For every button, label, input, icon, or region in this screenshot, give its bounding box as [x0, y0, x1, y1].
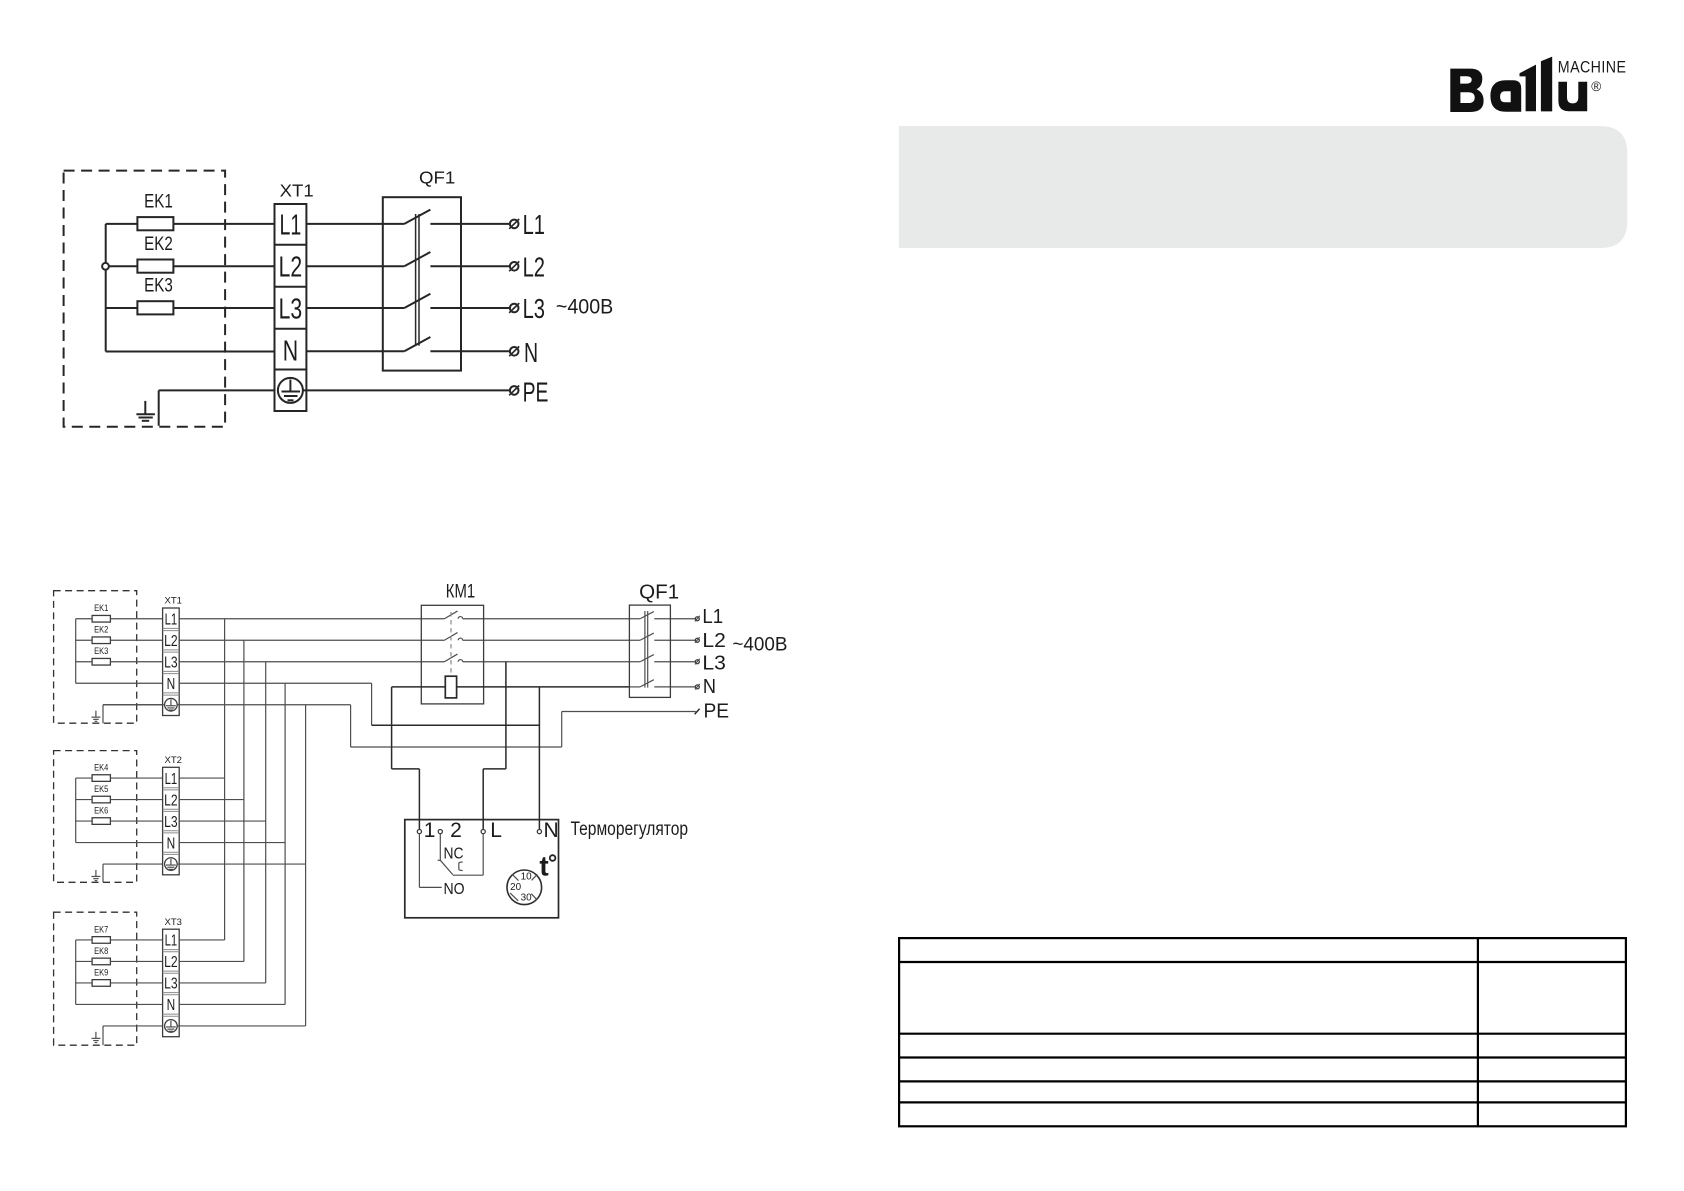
svg-text:PE: PE: [704, 700, 730, 723]
svg-text:EK4: EK4: [94, 762, 108, 773]
svg-text:XT1: XT1: [165, 596, 182, 607]
svg-text:N: N: [167, 676, 176, 693]
svg-text:MACHINE: MACHINE: [1558, 59, 1627, 77]
svg-text:L1: L1: [165, 611, 178, 628]
svg-text:N: N: [703, 675, 716, 698]
svg-text:20: 20: [510, 882, 522, 893]
svg-text:EK1: EK1: [94, 603, 108, 614]
svg-text:~400В: ~400В: [732, 634, 787, 656]
svg-text:XT1: XT1: [280, 180, 314, 200]
svg-text:КМ1: КМ1: [446, 581, 475, 603]
svg-text:Терморегулятор: Терморегулятор: [571, 819, 689, 840]
svg-text:L1: L1: [165, 933, 178, 950]
svg-text:L2: L2: [164, 792, 178, 809]
svg-text:L1: L1: [702, 605, 723, 628]
svg-text:L3: L3: [164, 814, 178, 831]
svg-text:N: N: [544, 819, 559, 842]
svg-text:EK5: EK5: [94, 784, 108, 795]
svg-text:EK7: EK7: [94, 924, 108, 935]
svg-text:L1: L1: [523, 209, 545, 240]
svg-text:1: 1: [424, 819, 436, 842]
svg-text:L2: L2: [279, 251, 303, 283]
svg-text:XT2: XT2: [165, 755, 182, 766]
svg-text:L2: L2: [702, 629, 726, 652]
svg-text:L2: L2: [164, 954, 178, 971]
svg-text:EK2: EK2: [144, 233, 173, 255]
svg-text:L3: L3: [702, 651, 726, 674]
svg-text:2: 2: [450, 819, 462, 842]
svg-text:EK9: EK9: [94, 967, 108, 978]
svg-text:EK8: EK8: [94, 946, 108, 957]
svg-text:~400В: ~400В: [556, 296, 613, 319]
svg-text:L1: L1: [165, 771, 178, 788]
svg-text:30: 30: [521, 892, 533, 903]
svg-text:XT3: XT3: [165, 917, 182, 928]
svg-text:PE: PE: [523, 377, 549, 408]
svg-text:QF1: QF1: [419, 168, 455, 188]
svg-text:L3: L3: [164, 976, 178, 993]
svg-text:QF1: QF1: [639, 582, 679, 604]
svg-text:EK3: EK3: [144, 275, 173, 297]
svg-text:L3: L3: [523, 293, 545, 324]
svg-text:NO: NO: [444, 881, 465, 898]
svg-text:L2: L2: [523, 251, 545, 282]
svg-text:L2: L2: [164, 633, 178, 650]
svg-text:EK1: EK1: [144, 191, 173, 213]
svg-text:L3: L3: [279, 293, 303, 325]
svg-text:®: ®: [1591, 79, 1601, 94]
svg-text:N: N: [167, 997, 176, 1014]
svg-text:L3: L3: [164, 654, 178, 671]
svg-text:N: N: [283, 336, 298, 368]
svg-text:EK2: EK2: [94, 625, 108, 636]
svg-text:NC: NC: [444, 846, 464, 863]
svg-text:t: t: [539, 851, 548, 882]
svg-text:L: L: [490, 819, 502, 842]
svg-text:EK3: EK3: [94, 646, 108, 657]
svg-text:N: N: [167, 835, 176, 852]
svg-text:10: 10: [521, 872, 533, 883]
svg-text:L1: L1: [280, 210, 302, 242]
svg-text:N: N: [524, 337, 538, 368]
svg-text:EK6: EK6: [94, 805, 108, 816]
